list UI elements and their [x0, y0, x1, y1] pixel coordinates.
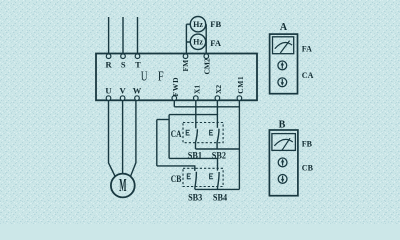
svg-text:M: M [119, 175, 126, 195]
svg-text:FB: FB [210, 19, 221, 29]
svg-text:CB: CB [171, 174, 182, 184]
meter FA arc [275, 43, 292, 49]
button A down arrow [281, 79, 284, 86]
button B up arrow [281, 159, 284, 166]
svg-text:CM1: CM1 [236, 76, 245, 94]
switch SB4 contact [218, 172, 220, 189]
wire FWD down [173, 100, 175, 107]
button up A [278, 61, 287, 70]
wire V2 vertical [156, 120, 158, 166]
wire V1 vertical [168, 115, 170, 159]
meter FA needle [280, 41, 289, 53]
wire X1 down to SB1 [195, 100, 197, 128]
svg-text:FB: FB [302, 140, 313, 149]
pushbutton SB4 actuator [210, 174, 214, 179]
svg-text:S: S [121, 60, 126, 70]
button A up arrow [281, 62, 284, 69]
svg-text:V: V [120, 86, 127, 96]
svg-text:SB2: SB2 [212, 151, 227, 161]
wire FM to Hz meters [186, 24, 190, 54]
button B down arrow [281, 176, 284, 183]
switch SB1 contact [196, 129, 198, 149]
svg-text:B: B [279, 120, 286, 131]
svg-text:CM2: CM2 [203, 58, 212, 74]
pushbutton SB1 actuator [186, 130, 190, 135]
inverter UF box [96, 54, 257, 101]
frequency meter FB (Hz) [190, 17, 205, 32]
CA bottom bus to CM1 [196, 148, 240, 150]
motor wire V [122, 100, 124, 173]
svg-text:U: U [141, 68, 148, 83]
svg-text:X1: X1 [192, 85, 201, 94]
svg-text:R: R [106, 60, 113, 70]
terminal circles bottom [106, 96, 111, 101]
CB bottom bus to CM1 [195, 188, 240, 190]
wire B horizontal [169, 114, 217, 116]
svg-text:SB1: SB1 [188, 151, 203, 161]
svg-text:SB3: SB3 [188, 192, 203, 202]
svg-text:X2: X2 [214, 85, 223, 94]
meter FA face [273, 37, 294, 54]
svg-text:F: F [158, 68, 164, 83]
wire FWD to CM1 [174, 106, 239, 108]
meter FB arc [274, 139, 293, 145]
svg-text:FWD: FWD [171, 77, 180, 97]
wire H2 jog [157, 119, 169, 121]
motor wire U [109, 100, 116, 176]
control box B [269, 130, 298, 196]
svg-text:FM: FM [181, 60, 190, 72]
wire to SB3 top [157, 166, 195, 171]
svg-text:U: U [105, 86, 111, 96]
svg-text:FA: FA [302, 45, 312, 54]
svg-text:Hz: Hz [193, 38, 203, 47]
svg-text:CB: CB [302, 164, 314, 173]
meter FB face [272, 134, 296, 151]
switch SB2 contact [217, 129, 219, 149]
wire X2 down to SB2 [216, 100, 218, 128]
control box A [270, 34, 298, 94]
button down A [278, 78, 287, 87]
motor M circle [111, 174, 135, 198]
frequency meter FA (Hz) [190, 34, 205, 49]
svg-text:CA: CA [302, 71, 314, 80]
dashed box CB [183, 168, 223, 186]
svg-text:CA: CA [171, 129, 182, 139]
button up B [278, 158, 287, 167]
meter FB needle [282, 138, 290, 150]
switch SB3 contact [195, 172, 197, 190]
phase input wire R [108, 17, 110, 54]
wire CM2 to Hz meters [205, 24, 208, 54]
pushbutton SB2 actuator [210, 130, 214, 135]
phase input wire T [137, 17, 139, 54]
wire to SB4 top [169, 158, 217, 170]
svg-text:SB4: SB4 [213, 192, 228, 202]
phase input wire S [122, 17, 124, 54]
pushbutton SB3 actuator [187, 174, 191, 179]
svg-text:Hz: Hz [193, 20, 203, 29]
dashed box CA [183, 123, 223, 143]
svg-text:FA: FA [210, 38, 222, 48]
button down B [278, 175, 287, 184]
svg-text:A: A [280, 22, 288, 33]
wire CM1 down [238, 100, 240, 189]
terminal circles top [106, 54, 242, 100]
motor wire W [130, 100, 136, 176]
svg-text:W: W [133, 86, 142, 96]
